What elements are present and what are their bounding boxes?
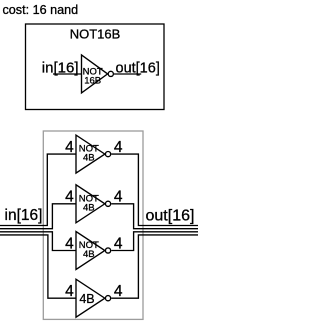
svg-text:4B: 4B [79,292,94,306]
wire out bus line 4 [111,235,198,298]
wire in bus line 3 [0,232,76,251]
svg-text:NOT16B: NOT16B [70,27,121,42]
inverter U4 (4B) [76,279,111,317]
wire symbol input [53,73,82,75]
inverter U3 (NOT 4B) [76,232,111,270]
svg-text:4B: 4B [83,202,95,213]
svg-text:4: 4 [114,283,123,300]
wire in bus line 1 [0,154,76,225]
wire out bus line 1 [111,154,198,225]
svg-text:4: 4 [114,189,123,206]
svg-text:4: 4 [65,139,74,156]
svg-text:4: 4 [65,235,74,252]
svg-text:4B: 4B [83,249,95,260]
implementation box [43,131,143,319]
wire in bus line 4 [0,235,76,298]
inverter U1 (NOT 4B) [76,135,111,173]
svg-text:4: 4 [114,139,123,156]
svg-text:4: 4 [65,283,74,300]
wire out bus line 3 [111,232,198,251]
wire out bus line 2 [111,204,198,229]
svg-text:in[16]: in[16] [5,207,43,224]
svg-text:4: 4 [65,189,74,206]
svg-text:cost: 16 nand: cost: 16 nand [3,3,79,17]
symbol box NOT16B [26,24,165,110]
svg-text:4B: 4B [83,153,95,164]
svg-text:out[16]: out[16] [146,208,195,225]
svg-text:4: 4 [114,235,123,252]
wire symbol output [114,73,141,75]
inverter U2 (NOT 4B) [76,185,111,223]
wire in bus line 2 [0,204,76,229]
svg-text:16B: 16B [84,76,101,87]
inverter U0 symbol (NOT 16B) [82,55,114,93]
